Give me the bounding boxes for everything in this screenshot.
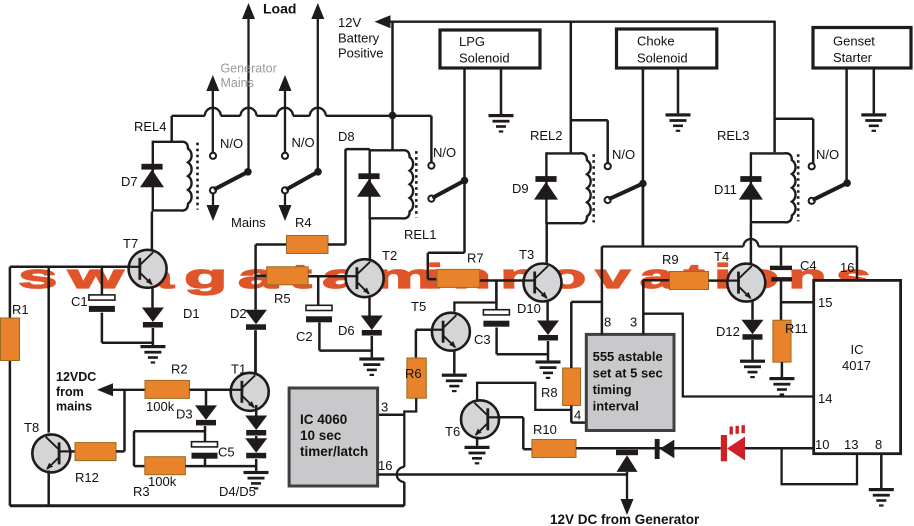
svg-text:12V DC from Generator: 12V DC from Generator: [550, 512, 700, 526]
svg-text:555 astable: 555 astable: [593, 349, 663, 364]
svg-text:16: 16: [840, 260, 854, 275]
svg-text:IC 4060: IC 4060: [300, 412, 347, 427]
svg-text:LPG: LPG: [459, 34, 485, 49]
svg-text:N/O: N/O: [816, 147, 839, 162]
svg-text:D11: D11: [714, 182, 737, 197]
svg-text:D1: D1: [183, 306, 200, 321]
svg-text:14: 14: [818, 391, 832, 406]
svg-text:13: 13: [844, 437, 858, 452]
svg-text:set at 5 sec: set at 5 sec: [593, 366, 663, 381]
svg-text:R4: R4: [295, 215, 312, 230]
svg-text:T5: T5: [411, 299, 426, 314]
svg-text:R7: R7: [467, 251, 484, 266]
svg-text:D7: D7: [121, 174, 138, 189]
svg-text:10: 10: [815, 437, 829, 452]
svg-text:T6: T6: [445, 424, 460, 439]
svg-text:Genset: Genset: [833, 34, 875, 49]
svg-text:C2: C2: [296, 329, 313, 344]
svg-text:D6: D6: [338, 323, 355, 338]
svg-text:R3: R3: [133, 484, 150, 499]
svg-text:R1: R1: [12, 302, 29, 317]
svg-text:R9: R9: [662, 252, 679, 267]
svg-text:Battery: Battery: [338, 31, 380, 46]
svg-text:R5: R5: [274, 291, 291, 306]
svg-text:C5: C5: [218, 445, 235, 460]
svg-text:T7: T7: [123, 236, 138, 251]
svg-text:10 sec: 10 sec: [300, 428, 342, 443]
svg-text:R10: R10: [533, 422, 557, 437]
svg-text:R2: R2: [171, 362, 188, 377]
svg-text:R11: R11: [785, 321, 808, 336]
svg-text:T4: T4: [714, 249, 729, 264]
svg-text:D9: D9: [512, 181, 529, 196]
svg-text:REL3: REL3: [717, 128, 750, 143]
svg-text:REL1: REL1: [404, 227, 437, 242]
svg-text:T8: T8: [24, 420, 39, 435]
svg-text:D10: D10: [517, 301, 541, 316]
svg-text:T2: T2: [382, 248, 397, 263]
svg-text:REL4: REL4: [134, 119, 167, 134]
svg-text:3: 3: [630, 315, 637, 330]
svg-text:N/O: N/O: [292, 135, 315, 150]
svg-text:C1: C1: [71, 294, 88, 309]
svg-text:3: 3: [381, 400, 388, 415]
svg-text:4: 4: [574, 408, 581, 423]
svg-text:T1: T1: [231, 362, 246, 377]
svg-text:from: from: [56, 385, 84, 399]
svg-text:N/O: N/O: [433, 145, 456, 160]
svg-text:8: 8: [604, 315, 611, 330]
svg-text:interval: interval: [593, 399, 639, 414]
svg-text:timer/latch: timer/latch: [300, 444, 368, 459]
svg-text:Mains: Mains: [231, 215, 266, 230]
svg-text:Starter: Starter: [833, 50, 873, 65]
svg-text:D2: D2: [230, 306, 247, 321]
svg-text:8: 8: [875, 437, 882, 452]
svg-text:12V: 12V: [338, 15, 361, 30]
svg-text:16: 16: [378, 458, 392, 473]
svg-text:IC: IC: [851, 342, 864, 357]
svg-text:4017: 4017: [842, 358, 871, 373]
svg-text:N/O: N/O: [612, 147, 635, 162]
svg-text:mains: mains: [56, 400, 92, 414]
svg-text:Positive: Positive: [338, 46, 384, 61]
svg-text:D3: D3: [176, 407, 193, 422]
svg-text:Solenoid: Solenoid: [637, 51, 688, 66]
svg-text:100k: 100k: [146, 399, 175, 414]
svg-text:timing: timing: [593, 382, 632, 397]
svg-text:C4: C4: [800, 258, 817, 273]
svg-text:R8: R8: [541, 385, 558, 400]
svg-text:15: 15: [818, 295, 832, 310]
svg-text:N/O: N/O: [220, 136, 243, 151]
svg-text:Solenoid: Solenoid: [459, 51, 510, 66]
svg-text:Choke: Choke: [637, 34, 675, 49]
svg-text:C3: C3: [474, 332, 491, 347]
svg-text:12VDC: 12VDC: [56, 370, 96, 384]
svg-text:R6: R6: [405, 366, 422, 381]
svg-text:D4/D5: D4/D5: [219, 484, 256, 499]
svg-text:Generator: Generator: [221, 62, 277, 76]
svg-text:Load: Load: [263, 1, 296, 17]
svg-text:D12: D12: [716, 324, 740, 339]
svg-text:D8: D8: [338, 129, 355, 144]
svg-text:T3: T3: [519, 247, 534, 262]
svg-text:R12: R12: [75, 470, 99, 485]
svg-text:100k: 100k: [148, 474, 177, 489]
svg-text:Mains: Mains: [221, 76, 254, 90]
svg-text:REL2: REL2: [530, 128, 563, 143]
